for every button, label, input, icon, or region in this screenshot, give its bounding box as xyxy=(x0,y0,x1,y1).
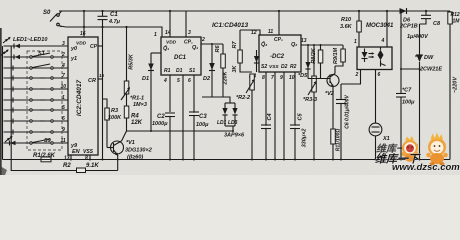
wire DC1 pin6 down xyxy=(188,75,195,161)
svg-text:R4: R4 xyxy=(131,114,139,120)
svg-text:*R3-3: *R3-3 xyxy=(303,97,317,103)
watermark mascot 2 xyxy=(426,133,448,166)
wire row y0 xyxy=(4,45,69,47)
svg-text:www.dzsc.com: www.dzsc.com xyxy=(392,162,460,173)
svg-text:y1: y1 xyxy=(70,56,77,62)
capacitor C2 xyxy=(152,112,176,127)
wire DC2 pin10 down / capacitor C5 xyxy=(289,72,308,161)
svg-text:*V1: *V1 xyxy=(126,140,135,146)
wire DC2 pin11 CP2 xyxy=(268,10,280,35)
svg-text:5: 5 xyxy=(177,78,180,84)
watermark mascot 1 xyxy=(402,136,419,162)
resistor R2 xyxy=(63,163,99,173)
svg-text:2: 2 xyxy=(355,72,359,78)
svg-text:D1: D1 xyxy=(176,68,183,74)
svg-text:3: 3 xyxy=(188,30,191,36)
svg-text:1μ/400V: 1μ/400V xyxy=(407,34,429,40)
svg-text:*R1-1: *R1-1 xyxy=(130,96,144,102)
capacitor C8 xyxy=(407,10,441,40)
wire S0 lower rail xyxy=(60,26,162,37)
svg-text:2: 2 xyxy=(201,37,205,43)
svg-text:3K: 3K xyxy=(232,64,238,72)
svg-text:7: 7 xyxy=(271,75,274,81)
switch S4 xyxy=(30,88,53,90)
svg-text:R2: R2 xyxy=(290,64,297,70)
wire DC2 Q2 out pin13 xyxy=(301,38,343,46)
svg-text:4: 4 xyxy=(163,78,167,84)
IC2 CR pin stub xyxy=(98,73,105,79)
svg-text:~220V: ~220V xyxy=(453,76,459,93)
wire LD bus down xyxy=(224,126,245,139)
op DC1 (CD4013 half) xyxy=(161,37,201,75)
svg-text:DC1: DC1 xyxy=(174,55,187,61)
wire row 7 xyxy=(4,109,69,111)
svg-text:R6: R6 xyxy=(215,45,221,53)
wire row y9 xyxy=(4,142,69,144)
svg-text:9: 9 xyxy=(280,75,283,81)
svg-text:D2: D2 xyxy=(203,76,210,82)
wire row y1 xyxy=(4,56,69,58)
svg-text:-DC2: -DC2 xyxy=(270,54,285,60)
wire DC1 Q1 out xyxy=(201,37,223,45)
scan left border xyxy=(0,28,2,175)
svg-text:*C7: *C7 xyxy=(402,88,412,94)
svg-text:C4: C4 xyxy=(267,113,273,120)
resistor R1 xyxy=(33,153,56,162)
wire row 6 xyxy=(4,99,69,101)
LED LED2 xyxy=(1,49,20,59)
wire DC2 pin12 xyxy=(240,30,260,36)
svg-text:220K: 220K xyxy=(223,70,229,85)
wire DC2 pin8 down xyxy=(261,72,273,161)
wire row 3 xyxy=(4,67,69,69)
svg-text:12K: 12K xyxy=(131,120,143,126)
svg-text:6: 6 xyxy=(188,78,191,84)
transistor V1 xyxy=(107,140,152,161)
diode LD3 xyxy=(225,103,238,126)
svg-text:CP: CP xyxy=(90,44,98,50)
svg-text:16: 16 xyxy=(80,31,86,37)
capacitor C7 xyxy=(396,10,421,161)
IC2 pin13 EN stub xyxy=(64,155,71,162)
wire DC1 pin14 xyxy=(165,10,171,37)
svg-text:EN: EN xyxy=(72,149,81,155)
diode D1 xyxy=(142,53,161,132)
svg-text:R3: R3 xyxy=(111,108,118,114)
LED LED1 xyxy=(3,37,20,49)
svg-text:R12: R12 xyxy=(451,12,460,18)
svg-text:S1: S1 xyxy=(189,68,195,74)
svg-text:R7: R7 xyxy=(232,41,238,49)
svg-text:3DG130×2: 3DG130×2 xyxy=(125,148,152,154)
wire row 9 xyxy=(4,131,69,133)
svg-text:15: 15 xyxy=(99,73,105,78)
svg-text:3.6K: 3.6K xyxy=(340,24,353,30)
svg-text:X1: X1 xyxy=(382,136,390,142)
svg-text:2CP1B: 2CP1B xyxy=(399,24,418,30)
wire L2 return xyxy=(11,160,76,171)
resistor R9 xyxy=(333,45,345,66)
wire DC1 pin5 down xyxy=(177,75,184,161)
LED LED10 xyxy=(5,136,16,146)
scan corner smudge xyxy=(0,166,7,175)
svg-text:MOC3041: MOC3041 xyxy=(366,23,394,29)
svg-text:4.7μ: 4.7μ xyxy=(108,19,121,25)
svg-text:12: 12 xyxy=(251,30,257,36)
resistor R3 xyxy=(103,99,123,148)
svg-text:LD3: LD3 xyxy=(228,120,238,126)
resistor R7 xyxy=(232,30,252,73)
ground bus L1 xyxy=(3,159,451,161)
wire VDD to IC2 pin16 xyxy=(80,10,86,37)
potentiometer RP1-1 xyxy=(121,87,147,108)
wire opto pin4 xyxy=(381,10,389,47)
svg-text:CR: CR xyxy=(88,78,96,84)
svg-text:2CW21E: 2CW21E xyxy=(419,67,442,73)
switch S0 xyxy=(43,10,62,27)
svg-text:CP₂: CP₂ xyxy=(274,37,283,43)
wire row 5 xyxy=(4,88,69,90)
svg-text:y0: y0 xyxy=(70,46,77,52)
node: left vertical bus xyxy=(2,46,4,160)
svg-text:1M×3: 1M×3 xyxy=(133,102,147,108)
svg-text:6: 6 xyxy=(378,72,381,78)
switch S9 xyxy=(30,138,53,144)
svg-text:VSS: VSS xyxy=(83,149,94,155)
resistor R11 xyxy=(331,129,342,161)
svg-text:14: 14 xyxy=(165,30,171,36)
transistor V2 xyxy=(308,66,339,161)
switch S3 xyxy=(30,77,53,79)
svg-text:R5/3K: R5/3K xyxy=(129,53,135,70)
svg-text:10: 10 xyxy=(289,75,295,81)
svg-text:3AP9×6: 3AP9×6 xyxy=(224,133,245,139)
node: LED cathode bus xyxy=(10,46,12,160)
capacitor C6 xyxy=(336,84,351,160)
svg-text:C6 0.01μ/400V: C6 0.01μ/400V xyxy=(345,95,351,129)
diode LD2 xyxy=(217,103,235,126)
svg-text:Q̄₂: Q̄₂ xyxy=(261,41,267,48)
svg-text:*D5: *D5 xyxy=(298,73,308,79)
diode D2 xyxy=(203,44,215,97)
svg-text:VSS: VSS xyxy=(269,64,279,70)
svg-text:Q₁: Q₁ xyxy=(192,45,198,51)
svg-text:*V2: *V2 xyxy=(325,91,334,97)
svg-text:100μ: 100μ xyxy=(402,100,415,106)
wire opto pin2 xyxy=(341,70,361,85)
dashed selector box xyxy=(27,51,62,150)
wire DC2 pin7 down / capacitor C4 xyxy=(271,72,276,161)
svg-text:100μ: 100μ xyxy=(196,122,209,128)
svg-text:100K: 100K xyxy=(108,115,122,121)
switch S5 xyxy=(30,99,53,101)
resistor R5 chain vertical xyxy=(124,26,134,94)
switch S8 xyxy=(30,131,53,133)
svg-text:R10: R10 xyxy=(341,17,351,23)
LED ticks rows 3-9 xyxy=(12,66,14,135)
switch S1 xyxy=(30,51,53,58)
svg-text:IC1:CD4013: IC1:CD4013 xyxy=(212,22,249,29)
svg-text:DW: DW xyxy=(424,55,434,61)
potentiometer RP2-2 xyxy=(236,74,255,161)
svg-text:8: 8 xyxy=(262,75,265,81)
wire row 4 xyxy=(4,77,69,79)
svg-text:C2: C2 xyxy=(157,114,165,120)
svg-text:R1: R1 xyxy=(164,68,171,74)
svg-text:VDD: VDD xyxy=(166,40,177,46)
svg-text:9.1K: 9.1K xyxy=(86,163,99,169)
svg-text:1000μ: 1000μ xyxy=(152,121,168,127)
op DC2 (CD4013 half) xyxy=(259,35,301,72)
capacitor C1 xyxy=(98,10,121,28)
wire top VDD rail xyxy=(59,10,450,12)
junction dots R1 line xyxy=(70,159,72,161)
svg-text:LD1: LD1 xyxy=(217,120,227,126)
svg-text:C5: C5 xyxy=(298,113,304,121)
svg-text:D2: D2 xyxy=(281,64,288,70)
wire DC1 pin3 xyxy=(186,11,191,37)
svg-text:1M: 1M xyxy=(453,19,460,25)
socket X1 xyxy=(369,79,390,161)
IC2 CP pin stub xyxy=(98,45,103,47)
resistor R12 / mains line xyxy=(448,11,460,160)
wire opto pin6 xyxy=(376,70,381,80)
potentiometer RP3-3 xyxy=(303,45,317,161)
svg-text:S0: S0 xyxy=(43,10,51,16)
svg-text:R8/2K: R8/2K xyxy=(311,47,317,64)
capacitor C3 xyxy=(189,112,209,128)
node: long vertical from C1/rail down (CP bus) xyxy=(102,27,104,160)
svg-text:R11/100Ω: R11/100Ω xyxy=(336,129,342,152)
diode D5 xyxy=(298,45,311,79)
resistor R6 xyxy=(215,44,229,97)
svg-text:C3: C3 xyxy=(199,114,207,120)
svg-text:R2: R2 xyxy=(63,163,71,169)
svg-text:13: 13 xyxy=(301,38,307,44)
svg-text:C1: C1 xyxy=(110,12,118,18)
svg-text:R1/2.6K: R1/2.6K xyxy=(33,153,56,159)
wire D2/R6 bottom bus xyxy=(202,97,230,103)
svg-text:Q₂: Q₂ xyxy=(291,42,297,48)
svg-text:13: 13 xyxy=(64,156,70,162)
svg-text:C8: C8 xyxy=(433,21,441,27)
resistor R10 xyxy=(340,10,361,47)
wire row 8 xyxy=(4,120,69,122)
svg-text:IC2:CD4017: IC2:CD4017 xyxy=(76,80,83,117)
svg-text:330μ×2: 330μ×2 xyxy=(302,129,308,148)
op IC2 CD4017 box xyxy=(68,37,98,155)
svg-text:*R2-2: *R2-2 xyxy=(236,95,250,101)
switch S6 xyxy=(30,109,53,111)
svg-text:1: 1 xyxy=(354,39,357,45)
svg-text:4: 4 xyxy=(381,38,385,44)
diode D4 xyxy=(249,50,259,80)
svg-text:Q̄₁: Q̄₁ xyxy=(163,45,169,52)
svg-text:VDD: VDD xyxy=(76,41,87,47)
resistor R8 xyxy=(311,45,323,79)
svg-text:8: 8 xyxy=(85,156,88,162)
svg-text:1: 1 xyxy=(154,32,157,38)
svg-text:D1: D1 xyxy=(142,76,149,82)
switch S7 xyxy=(30,120,53,122)
svg-text:R9/1M: R9/1M xyxy=(333,47,339,64)
IC2 pin8 VSS stub xyxy=(85,155,90,162)
zener DW xyxy=(416,24,442,161)
diode D6 xyxy=(399,8,418,30)
svg-text:(β≥60): (β≥60) xyxy=(127,155,143,161)
switch S2 xyxy=(30,64,53,69)
IC2 pin numbers left xyxy=(61,41,67,144)
resistor R4 xyxy=(122,106,234,141)
wire DC2 pin9 down xyxy=(280,72,285,161)
svg-text:11: 11 xyxy=(268,29,273,35)
wire DC1 pin4 down xyxy=(163,75,171,161)
svg-text:S2: S2 xyxy=(261,64,267,70)
op-coupler U1 MOC3041 xyxy=(357,23,394,70)
svg-text:LED1~LED10: LED1~LED10 xyxy=(13,37,47,43)
